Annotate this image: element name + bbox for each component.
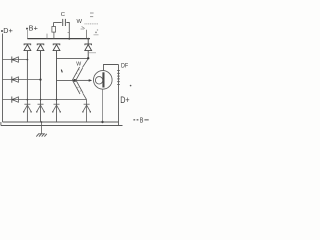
stator winding lower branch xyxy=(73,80,87,100)
node star point xyxy=(73,79,76,82)
wire phase3 column lower xyxy=(56,100,58,122)
node row2-col2 xyxy=(39,79,41,81)
zener diode D3 (top row, phase 3) xyxy=(53,44,60,100)
svg-text:D+: D+ xyxy=(120,95,130,105)
wire phase2 column lower xyxy=(40,80,42,122)
node row3 crossings xyxy=(27,99,58,101)
svg-text:B+: B+ xyxy=(29,24,38,33)
wire B+ bus xyxy=(27,38,90,40)
svg-text:B: B xyxy=(140,117,144,125)
svg-text:C: C xyxy=(61,12,65,18)
exciter diode D11 (left row 3) xyxy=(3,97,87,103)
minus diode D5 (bottom row, phase1) xyxy=(23,104,32,112)
terminal B- (bottom right) xyxy=(133,117,148,125)
speck xyxy=(95,32,97,34)
frame bottom outer xyxy=(1,125,123,127)
svg-text:W: W xyxy=(76,61,81,67)
rotor brush loop xyxy=(95,77,102,84)
stator winding upper branch xyxy=(72,59,88,82)
winding dashed core dots xyxy=(76,69,81,91)
minus diode D8 (bottom row, W phase) xyxy=(82,100,91,122)
ink tick left of winding xyxy=(61,70,62,73)
wire rotor feed with arrow xyxy=(75,79,90,81)
wire phase3 to W node xyxy=(57,57,89,59)
node row1-col1 xyxy=(27,59,29,61)
faint tiny text row xyxy=(85,23,99,25)
frame bottom-left outer corner xyxy=(0,122,2,126)
exciter diode D10 (left row 2) xyxy=(3,77,41,83)
wire left D+ bus xyxy=(2,34,4,123)
zener diode D2 (top row, phase 2) xyxy=(37,44,44,80)
minus diode D6 (bottom row, phase2) xyxy=(36,104,45,112)
node capacitor-bus junction xyxy=(68,38,70,40)
rotor slip-ring bar xyxy=(102,72,104,87)
node rotor-ground junction xyxy=(101,121,103,123)
resistor R (field winding ticks) xyxy=(117,65,120,126)
minus diode D7 (bottom row, phase3) xyxy=(52,104,61,112)
faint dash xyxy=(94,34,99,36)
faint print marks top right xyxy=(90,13,94,17)
wire rotor bottom drop xyxy=(102,89,104,122)
rotor / field winding circle xyxy=(94,71,113,90)
ground symbol xyxy=(36,121,47,137)
svg-text:DF: DF xyxy=(121,63,129,69)
wire W stub down to bus xyxy=(81,26,87,38)
terminal B+ (top label) xyxy=(26,24,38,33)
terminal D+ (top-left label) xyxy=(1,26,13,35)
node W-phase junction xyxy=(87,57,89,59)
zener diode D4 (top row, W phase) xyxy=(85,38,92,59)
svg-text:D+: D+ xyxy=(3,26,13,35)
capacitor mounting lug box xyxy=(52,23,56,39)
svg-text:W: W xyxy=(77,19,83,25)
wire rotor top to DF xyxy=(104,65,119,71)
wire star left branch xyxy=(57,79,75,81)
wire B+ drop xyxy=(26,30,28,39)
zener diode D1 (top row, phase 1) xyxy=(24,44,31,60)
speck node right xyxy=(130,85,132,87)
wire phase1 column lower xyxy=(26,60,28,122)
wire D- bus (inner bottom line) xyxy=(3,121,119,123)
capacitor C xyxy=(54,19,70,39)
exciter diode D9 (left row 1) xyxy=(3,57,28,63)
